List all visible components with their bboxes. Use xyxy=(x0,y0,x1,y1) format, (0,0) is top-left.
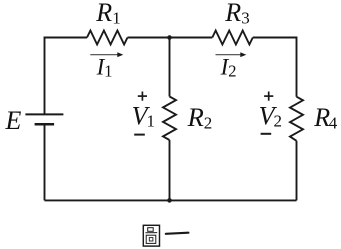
V2 minus sign xyxy=(261,133,272,135)
caption glyph 圖 (Figure) xyxy=(143,225,159,246)
wire: bottom-left corner up to battery - terminal xyxy=(44,124,46,200)
svg-text:R3: R3 xyxy=(224,0,249,28)
svg-text:R4: R4 xyxy=(313,103,337,132)
V2 plus sign xyxy=(264,92,273,101)
resistor R1 xyxy=(87,31,128,45)
wire: bottom rail xyxy=(45,199,297,201)
resistor R2 xyxy=(163,97,176,141)
svg-text:V2: V2 xyxy=(259,101,282,130)
wire: battery + terminal up and across to R1 xyxy=(45,38,88,115)
node A (top junction dot) xyxy=(167,35,172,40)
svg-text:R1: R1 xyxy=(95,0,120,28)
V1 plus sign xyxy=(138,92,147,101)
wire: R4 down to bottom-right corner xyxy=(296,141,298,201)
battery E positive plate (long) xyxy=(25,113,63,115)
svg-text:R2: R2 xyxy=(187,102,213,132)
wire: node A to R3 xyxy=(170,37,213,39)
node B (bottom junction dot) xyxy=(167,198,172,203)
svg-text:I2: I2 xyxy=(220,55,237,81)
current arrow I2 xyxy=(216,52,247,57)
wire: R3 to top-right corner and down to R4 xyxy=(253,38,297,97)
svg-text:V1: V1 xyxy=(132,101,155,130)
wire: R2 down to node B xyxy=(169,140,171,200)
wire: middle branch from node A down to R2 xyxy=(169,38,171,97)
caption glyph 一 (one) xyxy=(166,233,189,234)
resistor R4 xyxy=(290,97,303,141)
V1 minus sign xyxy=(134,134,145,136)
resistor R3 xyxy=(212,31,253,45)
svg-text:I1: I1 xyxy=(96,55,113,81)
battery E negative plate (short) xyxy=(35,123,55,126)
wire: R1 to node A xyxy=(128,37,170,39)
current arrow I1 xyxy=(90,52,123,57)
svg-text:E: E xyxy=(5,106,22,135)
